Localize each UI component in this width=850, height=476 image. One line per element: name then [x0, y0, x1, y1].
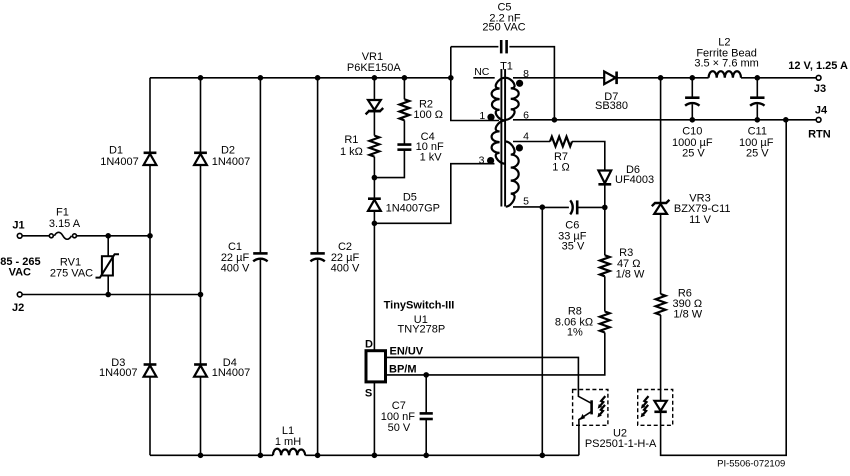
svg-text:3.5 × 7.6 mm: 3.5 × 7.6 mm	[694, 58, 759, 70]
wire T1 pin 6 RTN line	[513, 119, 816, 121]
terminal J4	[808, 104, 831, 140]
wire EN/UV line	[387, 357, 578, 389]
junction RTN / return riser	[783, 117, 789, 123]
fuse F1	[49, 207, 81, 240]
wire C6 to bias node	[577, 206, 605, 208]
junction RTN / C5 drop	[552, 117, 558, 123]
svg-text:1N4007: 1N4007	[99, 367, 138, 379]
capacitor C11	[739, 78, 774, 160]
resistor R3	[600, 247, 645, 281]
svg-text:1N4007: 1N4007	[212, 367, 251, 379]
svg-text:100 Ω: 100 Ω	[413, 109, 443, 121]
U1 BP/M pin label	[389, 364, 417, 376]
junction rail / D2	[198, 75, 204, 81]
svg-text:275 VAC: 275 VAC	[50, 268, 93, 280]
wire T1 pin 5 return column	[541, 207, 543, 455]
svg-text:1N4007GP: 1N4007GP	[386, 202, 440, 214]
svg-text:J3: J3	[814, 83, 826, 95]
wire R1 to clamp node	[373, 157, 375, 178]
svg-text:J4: J4	[815, 104, 828, 116]
svg-text:J1: J1	[12, 219, 24, 231]
wire U1 S pin to bottom rail	[373, 382, 375, 455]
capacitor C4	[397, 131, 444, 164]
diode D1	[100, 145, 156, 169]
svg-text:TNY278P: TNY278P	[398, 324, 446, 336]
svg-text:TinySwitch-III: TinySwitch-III	[384, 300, 455, 312]
T1 pin 8 dot	[516, 68, 529, 87]
U2 phototransistor light arrows	[597, 396, 605, 417]
svg-text:400 V: 400 V	[331, 263, 360, 275]
varistor RV1	[50, 254, 119, 279]
junction S pin / bottom rail	[372, 453, 378, 459]
svg-text:3: 3	[479, 154, 485, 166]
svg-text:1N4007: 1N4007	[100, 156, 139, 168]
U2 LED light arrows	[641, 396, 649, 417]
transformer T1 bias winding (4-5)	[506, 142, 519, 207]
junction C7 / bottom rail	[423, 453, 429, 459]
svg-text:S: S	[365, 388, 372, 400]
wire fuse to bridge	[77, 235, 150, 237]
U2 LED box	[638, 390, 673, 426]
junction clamp node	[372, 175, 378, 181]
resistor R1	[340, 134, 379, 158]
svg-text:35 V: 35 V	[562, 240, 585, 252]
svg-text:1 Ω: 1 Ω	[552, 162, 569, 174]
wire T1 pin 4 to R7	[513, 141, 550, 143]
wire RV1 top lead	[107, 236, 109, 256]
junction J2 line / bridge column	[198, 292, 204, 298]
TVS VR1	[347, 51, 401, 115]
U2 phototransistor box	[573, 390, 608, 426]
junction RTN / C10	[690, 117, 696, 123]
wire D1/D3 column	[149, 78, 151, 456]
junction BP/M line / C7	[423, 372, 429, 378]
junction RTN / C11	[755, 117, 761, 123]
svg-text:C10: C10	[682, 125, 702, 137]
junction J1 line / bridge column	[147, 233, 153, 239]
svg-text:25 V: 25 V	[682, 148, 705, 160]
wire C5 left riser	[450, 47, 452, 78]
svg-text:D2: D2	[221, 145, 235, 157]
diode D7	[595, 72, 628, 113]
wire D6 to bias node	[604, 184, 606, 207]
wire VR1 to R1	[373, 111, 375, 135]
wire R7 to D6	[572, 142, 605, 171]
label 85-265 VAC input	[0, 256, 40, 278]
wire R3 to R8	[604, 276, 606, 311]
wire VR1 top lead	[373, 78, 375, 101]
terminal J3	[788, 60, 848, 95]
svg-text:1%: 1%	[567, 327, 583, 339]
svg-text:250 VAC: 250 VAC	[482, 22, 525, 34]
wire J2 line	[23, 294, 201, 296]
svg-text:BP/M: BP/M	[389, 364, 417, 376]
wire bottom rail left	[150, 454, 273, 456]
T1 pin 4 dot	[516, 130, 529, 151]
transformer T1 secondary winding (8-6)	[506, 78, 519, 120]
svg-text:EN/UV: EN/UV	[390, 346, 424, 358]
capacitor C1	[221, 78, 268, 456]
junction rail / C5 riser	[448, 75, 454, 81]
capacitor C10	[672, 78, 713, 160]
resistor R2	[400, 99, 444, 122]
wire D7 to L2	[617, 77, 709, 79]
svg-text:1 kV: 1 kV	[420, 152, 443, 164]
svg-text:R1: R1	[344, 134, 358, 146]
junction J2 line / RV1	[105, 292, 111, 298]
svg-text:PI-5506-072109: PI-5506-072109	[717, 458, 785, 469]
transformer T1 primary upper half (NC-1)	[473, 66, 504, 120]
transformer T1 primary lower half (1-3)	[492, 121, 505, 164]
svg-text:T1: T1	[500, 60, 513, 72]
wire R6 to LED	[660, 315, 662, 390]
zener VR3	[652, 193, 731, 227]
inductor L2	[694, 37, 759, 78]
wire secondary return to RTN	[661, 120, 787, 456]
svg-text:1N4007: 1N4007	[212, 156, 251, 168]
junction J1 line / RV1	[105, 233, 111, 239]
junction pin 5 / return column	[540, 204, 546, 210]
transformer T1 core	[500, 60, 513, 206]
junction rail / VR1	[372, 75, 378, 81]
svg-text:VAC: VAC	[9, 267, 31, 279]
svg-text:5: 5	[523, 196, 529, 208]
svg-text:NC: NC	[474, 66, 490, 78]
svg-text:1 kΩ: 1 kΩ	[340, 146, 363, 158]
svg-text:11 V: 11 V	[689, 214, 711, 226]
wire RV1 bottom lead	[107, 276, 109, 295]
diode D2	[194, 145, 250, 169]
svg-text:F1: F1	[56, 207, 69, 219]
wire R8 to BP/M pin	[387, 333, 605, 375]
junction 12V line / C10	[690, 75, 696, 81]
T1 pin 3 dot	[479, 154, 495, 166]
svg-text:1/8 W: 1/8 W	[673, 309, 702, 321]
wire D2/D4 column	[200, 78, 202, 456]
IC U1 TinySwitch-III	[365, 300, 455, 400]
wire T1 pin 5 line	[513, 206, 569, 209]
terminal J1	[12, 219, 24, 238]
svg-text:SB380: SB380	[595, 100, 628, 112]
diode D6	[598, 164, 654, 186]
capacitor C5	[482, 2, 525, 54]
junction rail / C1	[258, 75, 264, 81]
svg-text:400 V: 400 V	[221, 263, 250, 275]
label PI-5506-072109	[717, 458, 785, 469]
wire drain node to T1 pin 3	[374, 164, 494, 224]
wire C5 right lead	[509, 47, 554, 120]
wire T1 pin 8 to D7	[513, 77, 604, 79]
wire bottom rail right	[305, 454, 579, 456]
svg-text:1/8 W: 1/8 W	[616, 269, 645, 281]
T1 pin 5 label	[523, 196, 529, 208]
wire C4 to clamp node	[374, 150, 404, 178]
svg-text:J2: J2	[12, 302, 24, 314]
svg-text:RTN: RTN	[808, 129, 831, 141]
svg-text:P6KE150A: P6KE150A	[347, 62, 401, 74]
wire VR3 to R6	[660, 214, 662, 294]
svg-text:25 V: 25 V	[746, 148, 769, 160]
svg-text:3.15 A: 3.15 A	[49, 218, 81, 230]
svg-text:D: D	[365, 339, 373, 351]
svg-text:1: 1	[479, 110, 485, 122]
svg-text:C11: C11	[748, 125, 767, 137]
junction bottom rail / C2	[315, 453, 321, 459]
junction rail / C2	[315, 75, 321, 81]
svg-text:UF4003: UF4003	[615, 174, 654, 186]
junction drain node	[372, 221, 378, 227]
wire R2 top lead	[403, 78, 405, 100]
junction bottom rail / D4	[198, 453, 204, 459]
diode D4	[194, 357, 250, 379]
U1 EN/UV pin label	[390, 346, 424, 358]
resistor R8	[555, 306, 610, 339]
wire R2 to C4	[403, 120, 405, 144]
terminal J2	[12, 292, 24, 314]
junction 12V line / C11	[755, 75, 761, 81]
U2 labels	[585, 427, 657, 450]
svg-text:PS2501-1-H-A: PS2501-1-H-A	[585, 438, 657, 450]
resistor R6	[656, 288, 703, 321]
junction bottom rail / C1	[258, 453, 264, 459]
wire top DC+ rail	[150, 77, 451, 79]
wire drain node to U1 D pin	[373, 223, 375, 350]
T1 pin 6 label	[523, 109, 529, 121]
svg-text:12 V, 1.25 A: 12 V, 1.25 A	[788, 60, 848, 72]
diode D3	[99, 357, 156, 379]
capacitor C6	[558, 200, 587, 252]
wire J1 to fuse	[23, 235, 50, 237]
inductor L1	[273, 425, 305, 455]
junction rail / R2	[402, 75, 408, 81]
U2 phototransistor	[578, 390, 591, 456]
svg-text:50 V: 50 V	[388, 422, 411, 434]
diode D5	[368, 178, 440, 224]
svg-text:1 mH: 1 mH	[275, 436, 301, 448]
svg-text:4: 4	[523, 130, 529, 142]
capacitor C7	[381, 375, 433, 455]
junction 12V line / VR3	[658, 75, 664, 81]
T1 pin 1 dot	[479, 110, 494, 122]
junction pin 5 column / bottom rail	[540, 453, 546, 459]
resistor R7	[550, 137, 572, 174]
capacitor C2	[310, 78, 360, 456]
wire 12V line to VR3	[660, 78, 662, 204]
wire L2 to J3	[741, 77, 816, 79]
wire bias node to R3	[604, 207, 606, 255]
wire rail to T1 pin 1	[451, 78, 499, 121]
svg-text:D1: D1	[109, 145, 123, 157]
wire C5 left lead	[451, 46, 499, 48]
junction bias node D6/C6/R3	[602, 205, 608, 211]
U2 LED	[654, 390, 666, 426]
